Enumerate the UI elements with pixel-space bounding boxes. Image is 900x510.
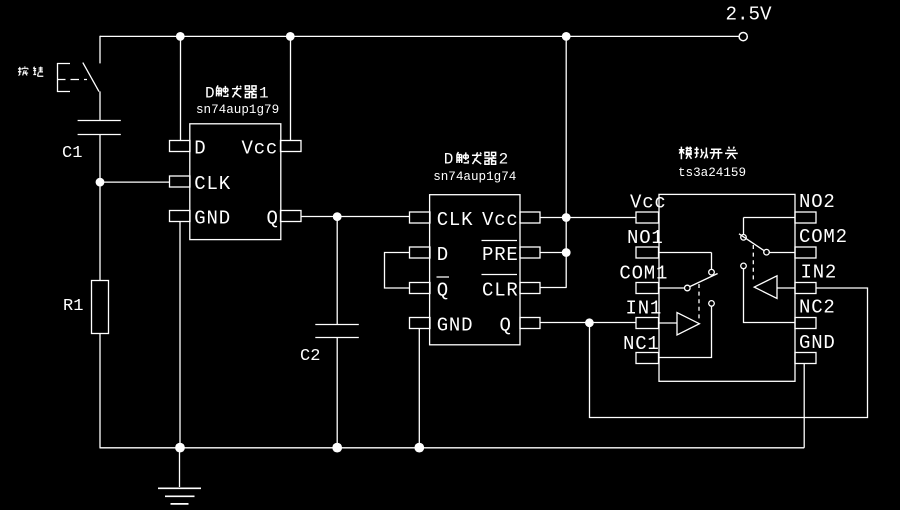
wire IN link down-right-up to IN2 <box>590 288 868 418</box>
label U3 part number ts3a24159 <box>678 166 746 180</box>
U1 pin Vcc <box>281 141 302 152</box>
svg-text:COM2: COM2 <box>799 226 848 248</box>
U3 pin labels right <box>799 191 848 354</box>
svg-text:1: 1 <box>259 85 269 103</box>
pushbutton S1 bracket <box>57 63 87 92</box>
resistor R1 <box>92 281 109 334</box>
U3 ch1 COM wire <box>659 287 685 289</box>
wire 2.5V drop to U2 <box>565 36 567 288</box>
wire U1 D to rail <box>180 36 182 141</box>
svg-text:NC1: NC1 <box>623 333 660 355</box>
label U3 title 模拟开关 <box>679 147 738 160</box>
junction node A C1/R1/CLK <box>96 178 105 187</box>
junction node PRE <box>562 248 571 257</box>
U3 buffer ch1 <box>677 313 699 335</box>
svg-text:CLK: CLK <box>194 173 231 195</box>
U3 ch2 COM wire <box>769 252 795 254</box>
label C2 <box>300 347 320 366</box>
junction top rail to Vcc U1 <box>286 32 295 41</box>
op U2 D-flipflop sn74aup1g74 body <box>430 195 520 345</box>
U3 pin COM2 <box>795 247 816 258</box>
U3 pin labels left <box>619 192 668 356</box>
U3 ch1 NO wire <box>659 253 712 270</box>
svg-text:D: D <box>205 85 215 103</box>
U2 pin labels <box>437 209 519 337</box>
op U1 D-flipflop sn74aup1g79 body <box>190 124 281 240</box>
U2 pin GND <box>410 318 431 329</box>
wire U2 PRE to supply <box>540 252 567 254</box>
svg-text:C2: C2 <box>300 347 320 366</box>
U2 overlines PRE CLR Qbar <box>437 241 518 278</box>
U3 ch2 NO wire <box>744 218 796 235</box>
wire U2 D-Qbar feedback loop <box>385 253 410 289</box>
terminal 2.5V <box>739 33 747 41</box>
svg-text:NO2: NO2 <box>799 191 836 213</box>
label C1 <box>62 144 82 163</box>
svg-text:sn74aup1g74: sn74aup1g74 <box>433 170 516 184</box>
U2 pin CLK <box>410 212 431 223</box>
U3 switch ch2 NC contact <box>741 263 747 269</box>
U3 switch ch2 blade <box>739 234 764 251</box>
svg-text:C1: C1 <box>62 144 82 163</box>
U3 pin NO2 <box>795 212 816 223</box>
U3 switch ch2 linkage <box>752 245 754 283</box>
label U2 part number sn74aup1g74 <box>433 170 516 184</box>
label U1 title D触发器1 <box>205 85 269 103</box>
wire U2 CLR to supply <box>540 287 567 289</box>
junction node IN <box>585 318 594 327</box>
svg-text:2.5V: 2.5V <box>726 3 773 25</box>
U3 switch ch1 linkage <box>698 284 700 319</box>
U3 pin Vcc <box>636 212 659 223</box>
U3 switch ch2 NO contact <box>741 235 747 241</box>
svg-text:Q: Q <box>437 279 449 301</box>
svg-text:R1: R1 <box>63 297 83 316</box>
junction top rail to U2 supply <box>562 32 571 41</box>
U3 pin GND <box>795 353 816 364</box>
U3 ch1 IN wire <box>659 322 677 324</box>
svg-text:CLR: CLR <box>482 279 519 301</box>
svg-text:2: 2 <box>499 150 509 168</box>
U2 pin PRE <box>520 247 540 258</box>
net label 2.5V <box>726 3 773 25</box>
wire C1 to node A <box>99 134 101 182</box>
junction node Vcc row <box>562 213 571 222</box>
wire U1 Vcc to rail <box>290 36 292 141</box>
op U3 analog switch ts3a24159 body <box>659 194 795 381</box>
wire rail corner down to switch <box>99 36 101 64</box>
U3 switch ch1 blade <box>690 274 718 287</box>
U2 pin Vcc <box>520 212 540 223</box>
U1 pin labels <box>194 137 278 229</box>
U3 pin NO1 <box>636 247 659 258</box>
wire switch to C1 <box>99 91 101 120</box>
svg-text:GND: GND <box>437 314 474 336</box>
U1 pin CLK <box>170 176 191 187</box>
svg-text:NO1: NO1 <box>627 227 664 249</box>
svg-text:GND: GND <box>194 207 231 229</box>
wire U2 GND to ground rail <box>418 329 420 448</box>
U3 ch2 NC wire <box>744 269 796 323</box>
svg-text:Vcc: Vcc <box>630 192 667 214</box>
U2 pin Q <box>520 318 540 329</box>
pushbutton S1 blade <box>83 63 99 92</box>
wire top 2.5V rail <box>100 35 739 37</box>
wire U3 GND to ground rail <box>803 364 805 448</box>
U2 pin D <box>410 247 431 258</box>
wire U2 Vcc row to U3 <box>540 217 636 219</box>
U3 switch ch1 NC contact <box>709 301 715 307</box>
U3 buffer ch2 <box>754 276 777 299</box>
U1 pin D <box>170 141 191 152</box>
label U1 part number sn74aup1g79 <box>196 103 279 117</box>
wire node A to CLK U1 <box>100 181 170 183</box>
U1 pin GND <box>170 211 191 222</box>
U2 pin Qbar <box>410 283 431 294</box>
svg-text:CLK: CLK <box>437 209 474 231</box>
junction gnd rail C2 <box>332 443 342 453</box>
svg-text:IN2: IN2 <box>801 261 838 283</box>
U3 pin COM1 <box>636 283 659 294</box>
wire R1 to ground rail <box>99 333 101 447</box>
svg-text:Vcc: Vcc <box>242 137 279 159</box>
U3 pin NC1 <box>636 353 659 364</box>
wire U1 Q to U2 CLK <box>301 216 410 218</box>
junction top rail to D pin <box>176 32 185 41</box>
svg-text:Vcc: Vcc <box>482 209 519 231</box>
junction node Q1/C2 <box>333 212 342 221</box>
svg-text:Q: Q <box>500 314 512 336</box>
label U2 title D触发器2 <box>444 150 508 168</box>
svg-text:IN1: IN1 <box>626 298 663 320</box>
svg-text:sn74aup1g79: sn74aup1g79 <box>196 103 279 117</box>
label 按键 pushbutton <box>18 66 43 76</box>
U1 pin Q <box>281 211 302 222</box>
wire bottom ground rail <box>100 447 805 449</box>
wire C2 to ground rail <box>336 337 338 447</box>
wire node to C2 <box>336 217 338 325</box>
U2 pin CLR <box>520 283 540 294</box>
wire U1 GND to ground rail <box>179 222 181 448</box>
wire U2 Q to U3 IN1 <box>540 322 636 324</box>
U3 switch ch1 NO contact <box>709 269 715 275</box>
svg-text:D: D <box>437 244 449 266</box>
svg-text:Q: Q <box>267 207 279 229</box>
junction gnd rail U1 GND <box>175 443 185 453</box>
U3 ch2 IN wire <box>777 287 795 289</box>
svg-text:PRE: PRE <box>482 244 519 266</box>
svg-text:COM1: COM1 <box>619 262 668 284</box>
svg-text:NC2: NC2 <box>799 297 836 319</box>
U3 switch ch1 COM pivot <box>685 285 691 291</box>
U3 pin NC2 <box>795 318 816 329</box>
U3 ch1 NC wire <box>659 306 712 357</box>
U3 pin IN2 <box>795 283 816 294</box>
U3 switch ch2 COM pivot <box>764 249 770 255</box>
svg-text:D: D <box>444 150 454 168</box>
U3 pin IN1 <box>636 318 659 329</box>
label R1 <box>63 297 83 316</box>
wire node A to R1 <box>99 182 101 281</box>
capacitor C1 <box>78 121 121 135</box>
capacitor C2 <box>315 325 359 338</box>
ground symbol <box>158 447 201 504</box>
junction gnd rail U2 GND <box>414 443 424 453</box>
svg-text:ts3a24159: ts3a24159 <box>678 166 746 180</box>
svg-text:D: D <box>194 137 206 159</box>
svg-text:GND: GND <box>799 332 836 354</box>
